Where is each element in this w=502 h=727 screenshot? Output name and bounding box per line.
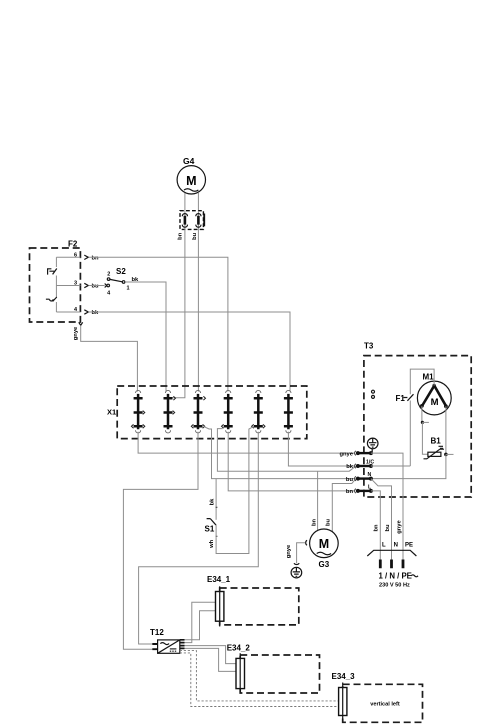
lamp E34_2 xyxy=(227,644,320,694)
connector row gnye xyxy=(339,451,372,457)
svg-text:wh: wh xyxy=(209,539,215,549)
wire G3 earth lead xyxy=(286,540,307,563)
wire G4 bn to connector xyxy=(184,193,186,211)
thermal-cutout box F2 xyxy=(30,240,81,323)
motor M1 xyxy=(417,373,451,415)
svg-text:bu: bu xyxy=(385,524,391,532)
wire 1/C row to F1 xyxy=(371,465,410,467)
svg-text:bu: bu xyxy=(192,232,198,240)
svg-text:M: M xyxy=(431,397,439,408)
terminal X1.3 xyxy=(191,390,205,433)
wire gnye F2 to X1.1 xyxy=(81,325,138,391)
svg-text:T12: T12 xyxy=(150,628,164,637)
wire G4 bu to connector xyxy=(197,193,199,211)
svg-text:M: M xyxy=(186,174,196,188)
wire X1.5 to T12 input 1 xyxy=(139,432,259,644)
terminal X1.6 xyxy=(284,390,293,433)
svg-text:F1: F1 xyxy=(396,394,406,403)
wire bu F2.3 to S2.4 xyxy=(89,285,105,287)
svg-text:bu: bu xyxy=(326,519,332,527)
svg-text:gnye: gnye xyxy=(286,544,292,558)
wire M1 left leg down xyxy=(421,406,423,423)
wire branch down to G3 bn xyxy=(317,471,319,530)
switch S2 xyxy=(105,267,139,297)
wire X1.3 to T12 input 2 xyxy=(123,432,198,649)
svg-text:S1: S1 xyxy=(205,525,215,534)
svg-text:bn: bn xyxy=(178,232,184,240)
wire bn F2.6 to X1.4 xyxy=(89,257,228,391)
terminal X1.5 xyxy=(252,390,265,433)
svg-text:gnye: gnye xyxy=(339,451,353,457)
lamp E34_3 xyxy=(332,672,423,722)
connector row bn / L xyxy=(346,484,373,495)
svg-text:G3: G3 xyxy=(319,560,330,569)
svg-text:bn: bn xyxy=(346,489,354,495)
svg-text:bk: bk xyxy=(210,498,216,506)
control unit T3 xyxy=(364,342,471,498)
fork gnye below F2 xyxy=(79,322,83,325)
wire bk F2.4 to X1.6 xyxy=(89,312,291,392)
terminal X1.2 xyxy=(164,390,176,432)
svg-text:M: M xyxy=(319,537,329,551)
svg-text:bk: bk xyxy=(346,464,354,470)
wire T12 out4 to E34_2 lower xyxy=(185,648,237,671)
svg-text:G4: G4 xyxy=(183,156,195,166)
svg-text:1: 1 xyxy=(127,286,130,292)
dashed wire T12 to E34_3 lower xyxy=(180,653,339,707)
svg-text:E34_1: E34_1 xyxy=(207,575,231,584)
svg-text:1 / N / PE: 1 / N / PE xyxy=(379,572,412,581)
wire bk S2.1 to X1.2 xyxy=(125,282,166,392)
wire branch bu to G3 xyxy=(332,479,356,532)
terminal X1.1 xyxy=(131,390,144,432)
svg-text:S2: S2 xyxy=(116,267,126,276)
connector pair symbol inside T3 xyxy=(372,390,375,398)
wire M1 apex to F1 xyxy=(410,369,434,394)
svg-text:vertical left: vertical left xyxy=(370,701,400,707)
svg-text:T3: T3 xyxy=(364,342,374,351)
svg-text:3: 3 xyxy=(74,281,77,287)
terminal X1.4 xyxy=(222,390,233,433)
svg-text:bn: bn xyxy=(311,519,317,527)
wire T12 out2 to E34_1 upper xyxy=(185,602,216,642)
svg-text:B1: B1 xyxy=(431,437,442,446)
svg-text:gnye: gnye xyxy=(397,519,403,533)
earth (PE) symbol in T3 xyxy=(367,438,378,452)
wire B1 node to N row xyxy=(373,454,446,478)
wire F1 to 1/C row xyxy=(409,401,411,467)
svg-text:bu: bu xyxy=(92,284,100,290)
svg-text:6: 6 xyxy=(74,253,77,259)
wire gnye row to plug PE xyxy=(371,453,403,560)
svg-text:PE: PE xyxy=(405,543,413,549)
svg-text:M1: M1 xyxy=(423,373,435,382)
pin 3 xyxy=(56,285,80,287)
wire G4-bu down to X1.3 xyxy=(197,229,199,391)
converter T12 xyxy=(150,628,185,654)
lamp E34_1 xyxy=(207,575,299,627)
svg-text:bn: bn xyxy=(374,524,380,532)
terminal block X1 xyxy=(107,386,307,439)
wire X1.4 left tap to G3/T3-bk xyxy=(217,429,356,472)
wire L row to plug L xyxy=(371,491,380,560)
ground (earthed chassis of G3) xyxy=(291,563,302,578)
wire M1 right leg to B1 right node xyxy=(445,406,447,454)
motor G4 xyxy=(177,156,205,194)
pin 4 xyxy=(56,311,80,313)
node B1 right xyxy=(444,453,448,457)
wire bk X1.6 to T3 xyxy=(288,432,354,466)
wire gnye X1.1 to T3 xyxy=(138,432,354,453)
svg-text:N: N xyxy=(394,543,398,549)
wire junction to B1 left xyxy=(422,422,428,454)
wire X1.3 right tap to T3 bu row xyxy=(204,427,354,479)
thermal fuse F1 xyxy=(396,394,414,403)
svg-text:bu: bu xyxy=(346,477,354,483)
connector (G4 plug) xyxy=(178,211,205,240)
wire S1 loop to X1.5 left tap xyxy=(216,427,253,554)
pin 6 xyxy=(56,256,80,258)
switch S1 xyxy=(205,479,218,549)
mains plug 1/N/PE xyxy=(367,519,418,588)
wire bn X1.4 to T3 L row xyxy=(228,432,354,491)
svg-text:bn: bn xyxy=(92,255,100,261)
dashed wire T12 to E34_3 upper xyxy=(180,651,339,701)
internal bus xyxy=(55,257,57,312)
wire N row to plug N xyxy=(371,479,392,560)
svg-text:230 V 50 Hz: 230 V 50 Hz xyxy=(379,582,410,588)
thermal contact lower xyxy=(46,297,57,301)
wire G4-bn down to X1.2 side tap xyxy=(173,229,185,397)
connector row bk / 1/C xyxy=(346,460,374,471)
thermistor B1 xyxy=(424,437,445,459)
connector row bu / N xyxy=(346,472,373,483)
fork pin6 xyxy=(84,255,88,259)
wire T12 out1 to E34_1 lower xyxy=(185,611,216,640)
svg-text:gnye: gnye xyxy=(73,326,79,340)
node (junction with stub) xyxy=(421,421,424,424)
svg-text:E34_3: E34_3 xyxy=(332,672,356,681)
thermal contact upper xyxy=(48,269,57,275)
svg-text:X1: X1 xyxy=(107,408,116,417)
svg-text:L: L xyxy=(382,543,386,549)
svg-text:bk: bk xyxy=(92,310,100,316)
wire T12 out3 to E34_2 upper xyxy=(185,646,237,664)
svg-text:E34_2: E34_2 xyxy=(227,644,251,653)
fork pin3 xyxy=(84,283,88,287)
svg-text:2: 2 xyxy=(107,272,110,278)
motor G3 xyxy=(310,519,339,569)
fork pin4 xyxy=(84,310,88,314)
